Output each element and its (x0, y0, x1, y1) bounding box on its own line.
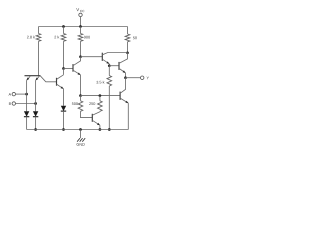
Q4 collector to R4 node (102, 53, 127, 55)
wire R3 to node (80, 41, 82, 56)
label 900 (84, 36, 90, 39)
wire R6 to Q6 base (81, 111, 93, 117)
label input B (9, 102, 11, 105)
Q1 emitter 2 diagonal (36, 76, 40, 80)
Vcc label (76, 8, 79, 11)
label 2k (54, 36, 59, 39)
wire B (16, 103, 36, 105)
junction Q3 collector / Q4 base (79, 55, 82, 58)
wire Q7 emitter down (127, 103, 129, 129)
resistor R5 3.5k (107, 76, 112, 87)
junction ground tap (79, 128, 82, 131)
Q7 emitter arrow (125, 101, 128, 103)
Q2 emitter diagonal (57, 84, 64, 89)
wire D2 to ground rail (35, 117, 37, 130)
resistor R1 2.8k (36, 34, 41, 42)
resistor R6 500 (78, 101, 83, 112)
transistor Q2 base bar (56, 78, 58, 86)
resistor R3 900 (78, 34, 83, 42)
junction squaring network (79, 94, 82, 97)
wire Q1 e2 down (35, 80, 37, 103)
Q6 collector diagonal (92, 112, 100, 116)
junction B/emitter/diode (34, 102, 37, 105)
label 2.8k (27, 36, 35, 39)
Q6 emitter diagonal (92, 120, 100, 125)
wire squaring node to Q7 base (crosses R5) (81, 95, 121, 97)
diode D2 (33, 111, 38, 116)
terminal A (12, 92, 15, 95)
wire node to Q3 base (64, 68, 74, 70)
label input A (9, 93, 12, 96)
junction rail/Vcc/900 (79, 25, 82, 28)
wire rail to R2 (63, 27, 65, 34)
diode D1 (24, 111, 29, 116)
Q4 emitter diagonal (102, 59, 109, 64)
label 50 (133, 37, 137, 40)
wire rail to R4 (127, 27, 129, 35)
wire to diode D1 (26, 94, 28, 111)
wire 900 node to Q4 base (81, 56, 103, 58)
Vcc terminal circle (79, 13, 82, 16)
Q1 emitter 1 arrow (27, 78, 30, 81)
wire R7 to Q6 collector (99, 110, 101, 113)
wire to Q5 base (109, 65, 119, 67)
label GND (77, 143, 85, 146)
label 500 (72, 102, 78, 105)
label output Y (147, 77, 149, 80)
wire R4 to node (127, 42, 129, 53)
Q7 emitter diagonal (120, 98, 128, 103)
wire Q2 emitter to diode D3 (63, 89, 65, 106)
wire Vcc rail (39, 26, 128, 28)
wire rail to R3 (80, 27, 82, 34)
Q3 emitter arrow (78, 72, 81, 74)
label 3.5k (96, 81, 104, 84)
junction R4/Q4 collector/Q5 collector (126, 51, 129, 54)
wire R2 to node (63, 41, 65, 68)
wire to Y terminal (126, 77, 141, 79)
transistor Q4 base bar (101, 53, 103, 61)
Q5 emitter arrow (123, 70, 126, 72)
resistor R7 250 (98, 101, 103, 112)
junction Q2 collector / Q3 base (62, 67, 65, 70)
Q1 emitter 2 arrow (36, 78, 39, 81)
transistor Q1 base bar (25, 75, 41, 77)
wire node to R7 (99, 96, 101, 101)
junction Q4 emitter / Q5 base / R5 (108, 64, 111, 67)
Q4 emitter arrow (106, 61, 109, 63)
wire Q5 emitter to output node (125, 73, 127, 78)
transistor Q3 base bar (72, 64, 74, 72)
ground symbol (77, 138, 80, 142)
wire node to R5 (108, 66, 110, 76)
junction output Y node (124, 76, 127, 79)
wire R5 to ground rail (crosses base line) (108, 86, 110, 130)
wire Q4 emitter to node (108, 64, 110, 66)
Q1 emitter 1 diagonal (27, 76, 31, 80)
label 250 (89, 102, 95, 105)
junction A/emitter/diode (25, 93, 28, 96)
junction D2/ground rail (34, 128, 37, 131)
junction Q6 emitter/ground rail (99, 128, 102, 131)
Q5 emitter diagonal (119, 68, 126, 73)
Q3 collector to 900 node (73, 57, 81, 66)
wire ground rail (27, 129, 129, 131)
wire D3 to ground rail (63, 111, 65, 129)
Q7 collector to output node (120, 78, 125, 94)
wire Q2 collector up to node (63, 69, 65, 75)
junction R5/ground rail (108, 128, 111, 131)
Q6 emitter arrow (97, 123, 100, 125)
terminal B (12, 102, 15, 105)
wire D1 to ground rail (26, 117, 28, 130)
wire to diode D2 (35, 104, 37, 112)
wire Q6 emitter to ground rail (99, 125, 101, 129)
wire Vcc lead (80, 17, 82, 27)
transistor Q6 base bar (91, 114, 93, 122)
wire ground stub (80, 130, 82, 139)
junction rail/2k (62, 25, 65, 28)
Q1 collector to Q2 base (41, 76, 57, 82)
wire A (16, 93, 27, 95)
Q3 emitter diagonal (73, 70, 81, 75)
resistor R4 50 (125, 34, 130, 42)
junction D3/ground rail (62, 128, 65, 131)
Q2 emitter arrow (61, 86, 64, 88)
wire Q3 emitter down to squaring node (80, 75, 82, 96)
wire rail to R1 (38, 27, 40, 34)
terminal Y (141, 76, 144, 79)
junction R7 top (99, 94, 102, 97)
diode D3 (61, 106, 66, 111)
transistor Q5 base bar (118, 62, 120, 70)
resistor R2 2k (61, 34, 66, 42)
wire Q1 e1 down (26, 80, 28, 94)
wire node to R6 (80, 96, 82, 101)
Q2 collector diagonal (57, 75, 64, 80)
transistor Q7 base bar (119, 92, 121, 100)
wire R1 to Q1 base (38, 41, 40, 75)
Q5 collector to R4 node (119, 53, 128, 64)
